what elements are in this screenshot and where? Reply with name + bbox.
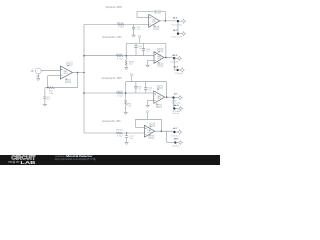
LED D1 bbox=[177, 20, 179, 22]
svg-text:1 kΩ: 1 kΩ bbox=[117, 58, 123, 60]
microphone MIC1 bbox=[31, 69, 34, 72]
svg-text:(2mcd): (2mcd) bbox=[173, 113, 180, 115]
wire feedback box stage1 bbox=[137, 11, 165, 13]
capacitor C5 bbox=[135, 82, 137, 87]
LED D2 bbox=[177, 33, 179, 35]
wire to C7 bbox=[126, 133, 128, 136]
svg-text:.1u: .1u bbox=[148, 90, 151, 92]
svg-text:.1u: .1u bbox=[146, 51, 149, 53]
LED D5 bbox=[172, 96, 174, 98]
svg-text:LM741: LM741 bbox=[63, 73, 67, 75]
ground (OA4 +) bbox=[146, 104, 149, 107]
wire stage2 input bbox=[84, 55, 154, 57]
svg-text:1 kΩ: 1 kΩ bbox=[117, 136, 123, 138]
svg-text:1 kΩ: 1 kΩ bbox=[117, 96, 123, 98]
ground (C7) bbox=[125, 142, 128, 145]
wire feedback drop bbox=[77, 73, 79, 88]
wire OA4 output bbox=[165, 96, 174, 98]
svg-text:http://circuitlab.com/c6q9h477: http://circuitlab.com/c6q9h4777z8j bbox=[55, 157, 96, 161]
svg-text:10k: 10k bbox=[49, 93, 53, 95]
svg-text:D7 (2mcd): D7 (2mcd) bbox=[171, 135, 178, 137]
capacitor C7 bbox=[125, 136, 128, 138]
svg-text:LAB: LAB bbox=[20, 160, 35, 165]
svg-text:OA1: OA1 bbox=[63, 70, 67, 73]
ground (mic) bbox=[37, 78, 40, 81]
resistor R6 bbox=[116, 92, 123, 94]
ground (OA3 +) bbox=[146, 64, 149, 67]
svg-text:OA4: OA4 bbox=[157, 95, 161, 98]
wire rail stage2 bbox=[126, 42, 166, 44]
LED D8 bbox=[174, 141, 176, 143]
net flag stage3 bbox=[131, 76, 133, 82]
capacitor C6 bbox=[145, 82, 147, 88]
wire OA2 output bbox=[160, 20, 178, 22]
svg-text:.1u: .1u bbox=[138, 48, 141, 50]
resistor R2 (feedback) bbox=[48, 87, 55, 89]
ground (C1) bbox=[43, 103, 46, 106]
net flag stage4 bbox=[146, 113, 148, 119]
wire stage4 input bbox=[84, 132, 144, 134]
svg-text:D4 (2mcd): D4 (2mcd) bbox=[175, 73, 183, 75]
wire stage3 input bbox=[84, 92, 154, 94]
wire mic to op-amp OA1 bbox=[41, 70, 60, 72]
LED D3 bbox=[173, 57, 175, 59]
wire OA5 output bbox=[155, 130, 175, 132]
svg-text:R3 1M: R3 1M bbox=[155, 12, 160, 14]
svg-text:D2 (1.5mcd): D2 (1.5mcd) bbox=[172, 37, 183, 39]
watermark bar bbox=[0, 155, 220, 165]
svg-text:R4 1k: R4 1k bbox=[117, 54, 123, 56]
wire OA3 output bbox=[164, 57, 174, 59]
svg-text:high band pass - 2500Hz: high band pass - 2500Hz bbox=[106, 7, 123, 9]
capacitor C4 bbox=[143, 43, 145, 48]
svg-text:R1 1k: R1 1k bbox=[117, 22, 124, 24]
svg-text:mid band pass filter - 1700Hz: mid band pass filter - 1700Hz bbox=[102, 36, 122, 39]
ground (C2) bbox=[132, 34, 135, 37]
svg-text:low band pass filter - 800Hz: low band pass filter - 800Hz bbox=[102, 77, 123, 80]
svg-text:D3 (2mcd): D3 (2mcd) bbox=[171, 62, 179, 64]
svg-text:10k: 10k bbox=[129, 64, 133, 66]
svg-text:D8 (2mcd): D8 (2mcd) bbox=[172, 146, 179, 148]
capacitor C1 bbox=[43, 97, 46, 99]
svg-text:10k: 10k bbox=[127, 106, 131, 108]
op-amp OA1 (preamp) bbox=[60, 66, 72, 79]
wire drop to D4 bbox=[173, 58, 175, 70]
wire OA3 + input to ground bbox=[148, 59, 154, 61]
LED D4 bbox=[176, 69, 178, 71]
wire OA1 output to bus bbox=[73, 72, 85, 74]
resistor R4 bbox=[116, 55, 123, 57]
wire to C2 bbox=[133, 25, 135, 28]
svg-text:sub band pass filter - 250Hz: sub band pass filter - 250Hz bbox=[102, 120, 121, 123]
svg-text:LM741: LM741 bbox=[157, 98, 161, 100]
svg-text:D1 (1.5mcd): D1 (1.5mcd) bbox=[172, 24, 183, 26]
svg-text:OA3: OA3 bbox=[157, 55, 161, 58]
net flag stage2 bbox=[139, 38, 141, 43]
capacitor C3 bbox=[135, 43, 137, 45]
svg-text:R8 1k: R8 1k bbox=[117, 129, 123, 131]
svg-text:1 kΩ: 1 kΩ bbox=[118, 26, 125, 28]
capacitor C2 bbox=[132, 27, 135, 29]
LED D7 bbox=[173, 131, 175, 133]
resistor R3 (feedback) bbox=[154, 10, 160, 13]
wire rail stage3 bbox=[126, 81, 167, 83]
wire to C1 bbox=[44, 88, 46, 97]
resistor R8 bbox=[116, 132, 123, 134]
ground (R7) bbox=[124, 112, 127, 115]
svg-text:OA5: OA5 bbox=[148, 129, 152, 132]
op-amp OA2 bbox=[149, 14, 160, 27]
resistor R5 (to ground) bbox=[125, 56, 127, 61]
svg-text:.1u: .1u bbox=[138, 88, 141, 90]
wire feedback box stage4 bbox=[136, 118, 162, 120]
resistor R1 bbox=[117, 23, 124, 25]
wire OA1 inverting input bbox=[48, 75, 61, 77]
wire bus bbox=[83, 25, 85, 134]
ground (R5) bbox=[125, 67, 128, 70]
wire drop to D8 bbox=[166, 131, 168, 142]
svg-text:+: + bbox=[37, 71, 38, 73]
svg-text:LM741: LM741 bbox=[157, 58, 161, 60]
wire OA4 + input to ground bbox=[148, 99, 154, 101]
wire feedback rail bbox=[45, 87, 78, 89]
op-amp OA4 bbox=[154, 91, 165, 104]
wire drop to D6 bbox=[173, 98, 175, 109]
svg-text:R6 1k: R6 1k bbox=[117, 91, 123, 93]
resistor R7 (to ground) bbox=[125, 93, 127, 99]
wire drop to D2 bbox=[177, 21, 179, 34]
op-amp OA3 bbox=[154, 52, 164, 64]
op-amp OA5 bbox=[144, 125, 154, 137]
LED D6 bbox=[173, 107, 175, 109]
svg-text:LM741: LM741 bbox=[148, 132, 152, 134]
svg-text:LM741: LM741 bbox=[152, 21, 156, 23]
wire stage1 input bbox=[84, 24, 149, 26]
svg-text:OA2: OA2 bbox=[152, 18, 156, 21]
